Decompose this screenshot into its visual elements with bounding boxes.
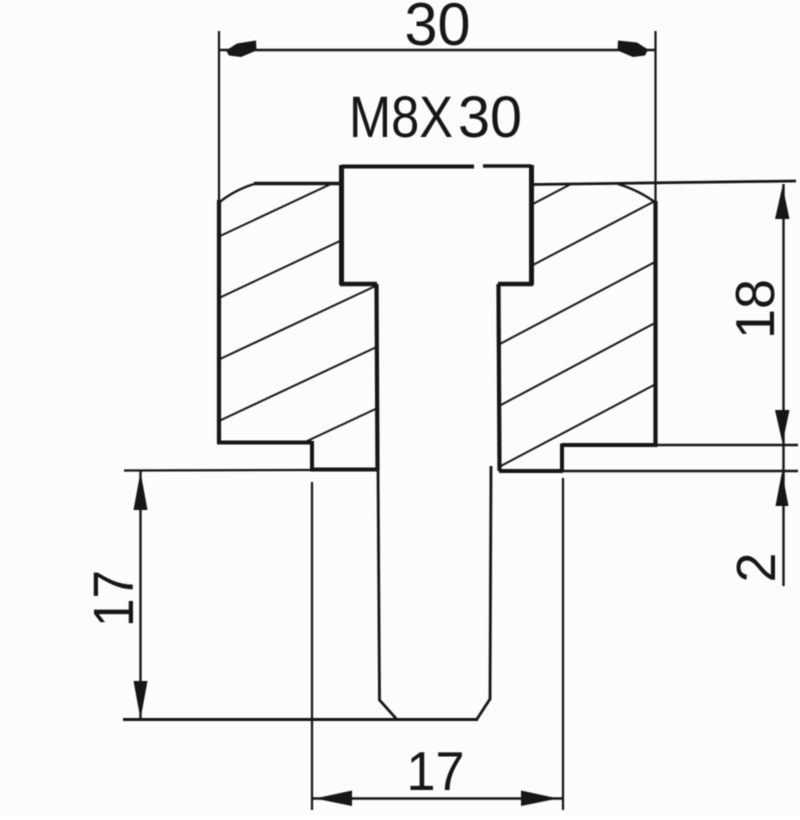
arrowhead 17 bottom left <box>315 791 352 807</box>
block bottom edge right <box>562 443 658 447</box>
extension line right of dimension 30 <box>654 31 656 203</box>
hatch line <box>499 385 654 467</box>
block bottom edge left <box>217 441 312 445</box>
dimension line 17 left <box>139 471 141 720</box>
arrowhead 2 bottom pointing up <box>776 472 789 506</box>
arrowhead right of dimension 30 <box>618 41 649 58</box>
dimension line 18 and 2 (right) <box>782 184 784 586</box>
arrowhead 17 left top <box>134 472 148 510</box>
svg-text:18: 18 <box>724 279 786 339</box>
lip bottom right <box>499 469 563 473</box>
hatch lines left block <box>219 184 376 443</box>
block right edge <box>653 201 657 445</box>
extension line left of dimension 30 <box>218 31 220 203</box>
svg-text:30: 30 <box>458 85 522 150</box>
block top edge right with 18-extension line <box>532 181 797 185</box>
bolt head top edge right segment <box>483 164 532 167</box>
bolt shoulder step left <box>340 282 377 287</box>
svg-text:17: 17 <box>407 740 465 802</box>
arrowhead 18 bottom <box>775 410 790 443</box>
bolt head right edge <box>529 165 534 285</box>
hatch line <box>531 184 571 205</box>
svg-text:2: 2 <box>725 553 787 583</box>
block left edge <box>217 200 221 443</box>
arrowhead 18 top <box>775 186 790 219</box>
lip left edge <box>310 441 314 470</box>
bolt tip chamfer left <box>380 700 397 719</box>
extension line top of left dimension 17 <box>124 469 312 472</box>
hatch lines right block <box>499 184 654 467</box>
dimension line 30 <box>219 49 656 51</box>
hole right edge <box>499 284 500 471</box>
hatch line <box>219 184 332 237</box>
svg-text:17: 17 <box>82 570 146 627</box>
hatch line <box>219 241 341 299</box>
dimension line 17 bottom <box>312 797 564 799</box>
bolt shank right edge below block <box>490 466 491 700</box>
hatch line <box>219 348 376 422</box>
svg-text:M8X: M8X <box>349 85 453 150</box>
lip right edge <box>560 444 564 472</box>
bolt head left edge <box>339 165 344 285</box>
extension line of dimension 2 upper <box>656 444 798 446</box>
hole left edge <box>377 284 378 470</box>
extension line right of bottom dimension 17 <box>562 478 564 810</box>
extension line of dimension 2 lower <box>562 470 798 472</box>
bolt shank left edge below block <box>378 467 380 701</box>
block top-left chamfer <box>219 184 256 203</box>
arrowhead 17 left bottom <box>134 681 148 719</box>
bolt tip chamfer right <box>477 699 490 719</box>
svg-text:30: 30 <box>405 0 471 58</box>
extension line left of bottom dimension 17 <box>311 482 313 810</box>
hatch line <box>531 202 654 267</box>
block top-right chamfer <box>618 184 656 203</box>
arrowhead 17 bottom right <box>521 791 558 807</box>
lip bottom left <box>310 468 377 472</box>
hatch line <box>499 324 654 407</box>
extension line bottom of left dimension 17 merging bolt tip bottom edge <box>123 718 478 721</box>
arrowhead left of dimension 30 <box>226 41 257 58</box>
hatch line <box>219 286 376 360</box>
hatch line <box>305 409 376 442</box>
block top edge left <box>254 182 342 186</box>
hatch line <box>499 263 654 345</box>
bolt shoulder step right <box>498 282 533 287</box>
bolt head top edge <box>342 165 475 169</box>
